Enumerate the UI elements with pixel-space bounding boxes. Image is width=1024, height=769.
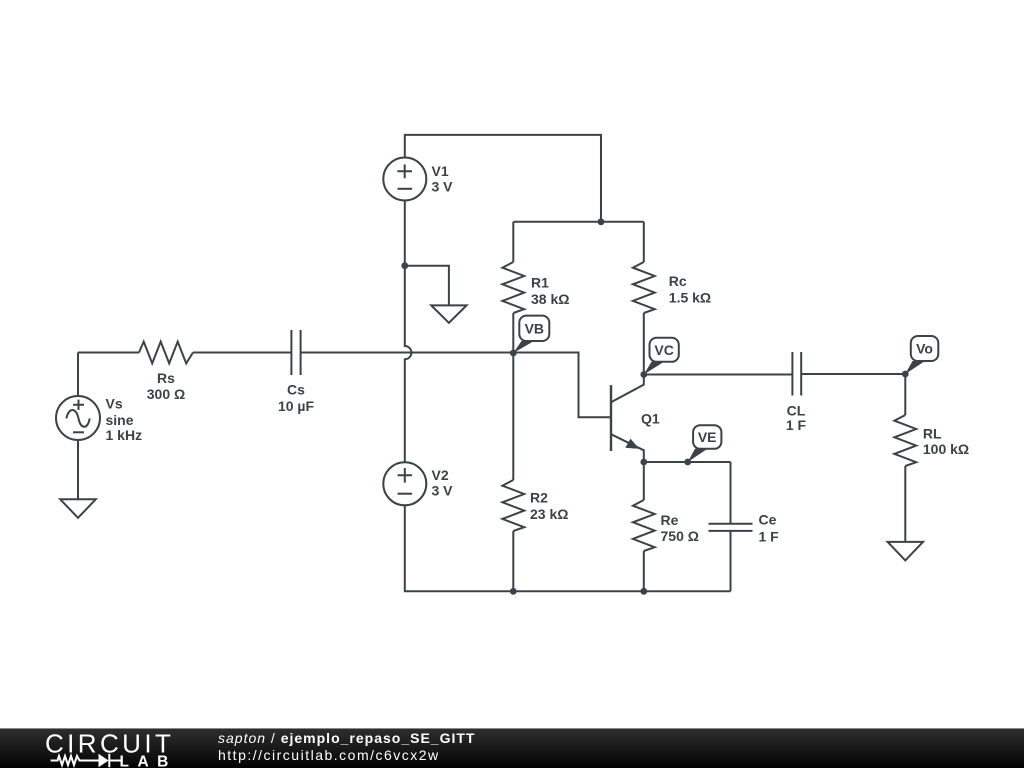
- ground (below RL): [888, 542, 923, 561]
- wire: Rc bottom lead to node VC: [643, 313, 645, 375]
- node: Re bottom junction dot: [640, 588, 647, 595]
- svg-text:V2: V2: [432, 467, 449, 483]
- wire: Vs bottom lead: [77, 440, 79, 500]
- footer bar: [0, 728, 1024, 768]
- svg-text:VC: VC: [654, 342, 673, 358]
- ground (below V1): [431, 305, 466, 322]
- svg-text:10 µF: 10 µF: [278, 398, 315, 414]
- wire: Rc top lead: [643, 222, 645, 262]
- svg-text:1 kHz: 1 kHz: [106, 427, 143, 443]
- wire: Cs to base corner with VB node: [301, 353, 611, 418]
- capacitor CL: [792, 352, 801, 396]
- svg-text:VB: VB: [525, 320, 544, 336]
- svg-text:RL: RL: [923, 426, 942, 442]
- footer text: [218, 730, 475, 764]
- node label VB: [513, 316, 549, 353]
- resistor Rc: [633, 262, 655, 313]
- node label VC: [644, 338, 679, 375]
- svg-text:300 Ω: 300 Ω: [147, 386, 185, 402]
- wire: rail between R1 and Rc tops: [513, 221, 644, 223]
- node VE junction dot: [684, 459, 691, 466]
- svg-text:38 kΩ: 38 kΩ: [531, 291, 569, 307]
- svg-text:23 kΩ: 23 kΩ: [530, 506, 568, 522]
- wire: middle vertical V1 to V2 with hop over input rail: [405, 266, 412, 463]
- wire: Re bottom lead: [643, 551, 645, 591]
- wire: Vo to RL top: [904, 374, 906, 415]
- resistor Re: [633, 500, 655, 551]
- wire: R1 top lead: [512, 222, 514, 262]
- svg-text:Cs: Cs: [287, 381, 305, 397]
- svg-text:Vs: Vs: [106, 396, 123, 412]
- resistor Rs: [139, 342, 193, 364]
- node Vo junction dot: [902, 371, 909, 378]
- wire: R2 top lead from node VB: [512, 353, 514, 480]
- wire: Ce top lead: [730, 462, 732, 524]
- capacitor Cs: [291, 330, 300, 375]
- node: R2 bottom junction dot: [510, 588, 517, 595]
- svg-text:R1: R1: [531, 275, 549, 291]
- wire: RL bottom lead: [904, 466, 906, 542]
- svg-text:750 Ω: 750 Ω: [661, 528, 699, 544]
- voltage source V1: [383, 158, 426, 201]
- ground (below Vs): [60, 499, 96, 518]
- svg-text:VE: VE: [698, 429, 717, 445]
- node: junction dot V1 loop / Rc rail: [598, 218, 605, 225]
- node VB junction dot: [510, 350, 517, 357]
- node label VE: [688, 425, 722, 462]
- voltage source V2: [383, 462, 426, 505]
- transistor Q1: [611, 375, 644, 463]
- wire: Re top lead: [643, 462, 645, 500]
- wire: V2 bottom lead to bottom rail: [405, 505, 514, 592]
- wire: Vs top lead: [77, 353, 79, 397]
- node: junction dot V1 minus / ground stub: [401, 262, 408, 269]
- svg-text:V1: V1: [432, 163, 449, 179]
- svg-text:Ce: Ce: [759, 512, 777, 528]
- wire: main input rail from Vs to Cs: [78, 352, 291, 354]
- wire: R2 bottom lead: [512, 531, 514, 591]
- svg-text:R2: R2: [530, 490, 548, 506]
- svg-text:1 F: 1 F: [786, 417, 807, 433]
- wire: emitter rail to Ce with node VE: [644, 461, 731, 463]
- wire: stub to ground near V1: [405, 266, 449, 306]
- svg-text:CL: CL: [787, 402, 806, 418]
- svg-text:Q1: Q1: [641, 411, 660, 427]
- resistor R1: [502, 262, 524, 313]
- svg-text:sine: sine: [106, 412, 134, 428]
- resistor R2: [502, 480, 524, 531]
- voltage source Vs: [56, 396, 100, 440]
- svg-text:LAB: LAB: [120, 753, 177, 769]
- wire: R1 bottom lead to node VB: [512, 313, 514, 353]
- CircuitLab logo: [0, 729, 200, 769]
- svg-text:Vo: Vo: [916, 341, 933, 357]
- node: emitter junction dot: [640, 459, 647, 466]
- wire: VC output rail to CL: [644, 374, 793, 376]
- wire: V1 top loop to Rc rail: [405, 135, 601, 222]
- svg-text:3 V: 3 V: [432, 482, 454, 498]
- svg-text:Rs: Rs: [157, 370, 175, 386]
- wire: bottom rail: [513, 590, 730, 592]
- svg-text:Re: Re: [661, 512, 679, 528]
- resistor RL: [894, 415, 916, 466]
- svg-text:Rc: Rc: [669, 273, 687, 289]
- svg-text:3 V: 3 V: [432, 178, 454, 194]
- wire: CL to node Vo: [801, 373, 905, 375]
- node label Vo: [905, 336, 938, 374]
- svg-text:1 F: 1 F: [759, 528, 780, 544]
- svg-text:1.5 kΩ: 1.5 kΩ: [669, 289, 711, 305]
- capacitor Ce: [709, 524, 753, 531]
- svg-text:100 kΩ: 100 kΩ: [923, 441, 969, 457]
- wire: Ce bottom lead: [730, 531, 732, 591]
- wire: V1 bottom lead: [404, 201, 406, 266]
- node VC junction dot: [640, 371, 647, 378]
